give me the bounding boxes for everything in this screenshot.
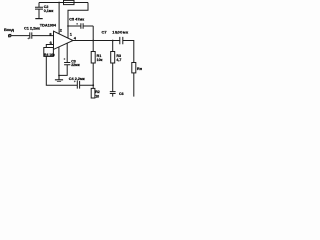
capacitor C1 <box>27 32 31 39</box>
resistor R3 <box>111 52 115 64</box>
svg-text:4,7: 4,7 <box>116 58 121 62</box>
node ground junction <box>58 75 60 77</box>
capacitor C6 <box>110 92 116 97</box>
wire R3 bottom lead <box>112 63 114 92</box>
resistor R2 <box>91 88 95 98</box>
wire top rail <box>39 2 88 4</box>
svg-text:0,1мк: 0,1мк <box>44 9 54 13</box>
wire pin 2 <box>58 3 60 34</box>
wire pin 6 <box>46 45 53 48</box>
capacitor C3 <box>64 43 71 65</box>
svg-text:2: 2 <box>60 28 63 33</box>
svg-text:C6: C6 <box>119 92 124 96</box>
node output R1 <box>92 40 94 42</box>
ground (under C2) <box>35 18 42 20</box>
wire output <box>73 40 120 42</box>
wire R3 top lead <box>112 41 114 52</box>
capacitor C7 <box>116 32 123 44</box>
svg-text:C7: C7 <box>102 29 108 34</box>
svg-text:1: 1 <box>70 31 73 36</box>
resistor R5 (series in supply rail) <box>64 0 75 4</box>
node pin2 junction on rail <box>58 2 60 4</box>
svg-text:R3: R3 <box>116 54 121 58</box>
wire pin 7 stub <box>58 47 60 76</box>
svg-text:C5 47мк: C5 47мк <box>69 18 84 22</box>
wire R4 to bottom <box>46 56 77 85</box>
resistor R1 <box>91 52 95 64</box>
svg-text:22мк: 22мк <box>71 63 80 67</box>
svg-text:4: 4 <box>74 35 77 40</box>
svg-text:10: 10 <box>95 94 99 98</box>
node output R3 <box>112 40 114 42</box>
wire supply corner <box>68 3 88 27</box>
input terminal <box>8 34 11 37</box>
capacitor C5 <box>68 23 93 29</box>
svg-text:Вход: Вход <box>4 27 14 32</box>
resistor RL <box>132 63 136 73</box>
capacitor C4 <box>74 81 93 89</box>
svg-text:10к: 10к <box>97 58 103 62</box>
wire R1 top lead <box>92 41 94 52</box>
svg-text:C1 2,2мк: C1 2,2мк <box>24 26 40 30</box>
wire input <box>11 35 30 37</box>
capacitor C2 <box>35 3 43 19</box>
svg-text:1000мк: 1000мк <box>112 29 128 34</box>
svg-text:R4 16к: R4 16к <box>44 53 55 57</box>
node R2 junction <box>92 84 94 86</box>
svg-text:TDA1904: TDA1904 <box>40 24 57 28</box>
wire R1 bottom lead <box>92 63 94 85</box>
op-amp U1 triangle <box>54 31 74 49</box>
wire to C3 <box>59 65 67 76</box>
resistor R4 <box>44 48 54 57</box>
wire bootstrap down <box>92 26 94 41</box>
wire C1 to pin 8 <box>32 35 54 37</box>
wire R2 lead <box>92 85 94 88</box>
node C5 junction <box>67 25 69 27</box>
svg-text:C4 2,2мк: C4 2,2мк <box>69 77 85 81</box>
wire to load <box>123 41 134 63</box>
svg-text:R1: R1 <box>97 54 102 58</box>
ground (feedback) <box>55 76 63 80</box>
svg-text:Rн: Rн <box>137 66 143 71</box>
wire pin 1 <box>67 26 69 38</box>
wire load bottom <box>133 73 135 97</box>
